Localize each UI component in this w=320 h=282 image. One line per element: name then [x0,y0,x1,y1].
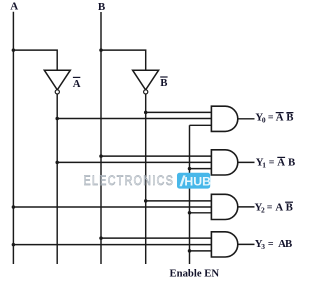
svg-text:=: = [267,202,273,213]
inverter U1 (A NOT gate) [44,70,70,94]
wire B branch to inverter U2 [101,50,146,70]
wire G3 input3 from EN [190,212,212,214]
node EN to G4 junction [188,249,192,253]
wire G1 input2 from A-bar [57,118,211,120]
svg-text:A: A [10,1,18,13]
wire B-bar vertical bus [145,94,147,264]
watermark HUB box [177,173,211,189]
wire Y3 output [238,243,255,245]
wire G3 input2 from A [13,206,211,208]
svg-text:A: A [277,156,285,168]
svg-text:=: = [269,157,275,168]
wire G4 input2 from A [13,244,211,246]
svg-text:1: 1 [262,160,266,169]
node A-bar to G1 junction [55,117,59,121]
overbar B in Y2 [285,201,293,203]
wire Y2 output [238,206,255,208]
svg-text:B: B [98,1,106,13]
overbar A in Y1 [277,156,285,158]
svg-text:2: 2 [261,205,265,214]
svg-text:A: A [73,78,81,90]
node B to G2 junction [99,154,103,158]
node A branch junction [12,48,16,52]
svg-text:A: A [275,201,283,213]
svg-text:3: 3 [261,242,265,251]
svg-text:B: B [286,112,293,124]
wire G1 input3 from EN [190,124,212,126]
node B branch junction [99,48,103,52]
node B to G4 junction [99,236,103,240]
svg-text:HUB: HUB [184,174,211,188]
wire B vertical bus [100,12,102,264]
node EN to G2 junction [188,167,192,171]
wire Y0 output [238,118,255,120]
wire G2 input1 from B [101,155,211,157]
svg-text:0: 0 [262,116,266,125]
wire A-bar vertical bus [56,94,58,264]
wire G4 input3 from EN [190,250,212,252]
svg-text:A: A [276,112,284,124]
node B-bar to G1 junction [144,111,148,115]
wire EN vertical bus [189,125,191,264]
node A to G3 junction [12,205,16,209]
wire G1 input1 from B-bar [146,111,212,113]
svg-text:Enable EN: Enable EN [170,267,220,279]
wire G2 input3 from EN [190,168,212,170]
overbar A in Y0 [276,112,284,114]
node EN to G3 junction [188,211,192,215]
svg-text:=: = [268,239,274,250]
wire Y1 output [238,161,255,163]
svg-text:B: B [160,77,167,89]
and-gate G4 (Y3) [211,232,237,257]
svg-text:B: B [288,156,295,168]
overbar of B-bar label at U2 [160,76,167,78]
node B-bar to G3 junction [144,199,148,203]
overbar of A-bar label at U1 [73,76,80,78]
inverter U2 (B NOT gate) [133,70,159,94]
svg-text:B: B [285,238,292,250]
wire A vertical bus [12,12,14,264]
svg-text:=: = [268,113,274,124]
and-gate G1 (Y0) [211,106,237,131]
node A to G4 junction [12,243,16,247]
svg-text:B: B [286,201,293,213]
wire G2 input2 from A-bar [57,161,211,163]
wire G3 input1 from B-bar [146,200,212,202]
and-gate G3 (Y2) [211,194,237,219]
svg-text:ELECTRONICS: ELECTRONICS [84,173,175,189]
watermark Electronics text [84,173,175,189]
overbar B in Y0 [286,112,293,114]
and-gate G2 (Y1) [211,150,237,175]
wire A branch to inverter U1 [13,50,57,70]
node A-bar to G2 junction [55,161,59,165]
wire G4 input1 from B [101,237,211,239]
